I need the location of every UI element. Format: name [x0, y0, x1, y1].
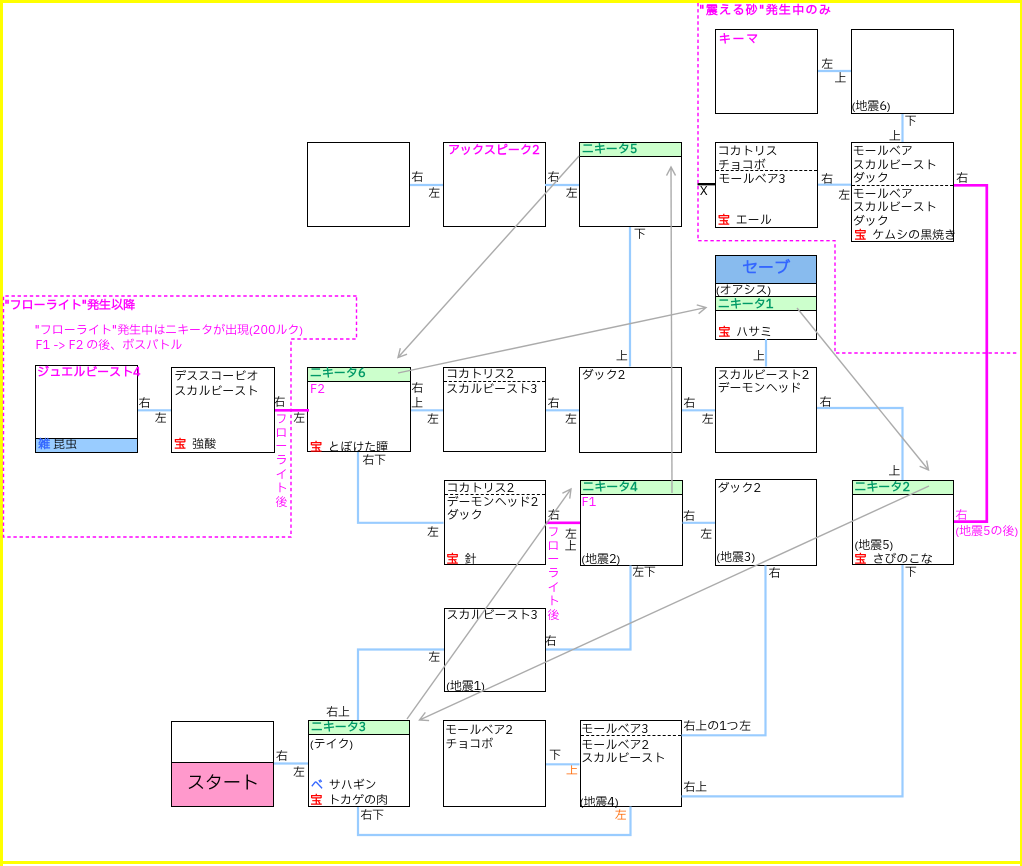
room cockatrice	[715, 142, 818, 228]
page frame yellow left	[0, 0, 3, 866]
dashed border fluorite region	[4, 296, 357, 537]
label fluorite region title	[5, 300, 136, 314]
divider cockatrice2-skull3 box	[444, 381, 545, 382]
connector direction labels	[411, 172, 423, 186]
dashed border trembling-sand region	[698, 3, 1019, 353]
room kiima	[715, 29, 818, 114]
wire jishin6-molebear	[901, 114, 903, 142]
label trembling-sand region title	[699, 5, 832, 19]
box interior texts	[719, 34, 760, 48]
room duck2	[579, 367, 682, 453]
wire X cockatrice-left	[698, 183, 716, 185]
arrow nikita3 to nikita4	[407, 489, 571, 719]
label jishin5-no-ato magenta	[956, 526, 1019, 540]
room molebear-double	[851, 142, 954, 242]
room empty top-left	[307, 142, 410, 227]
wire axepeak-nikita5	[545, 184, 579, 186]
wire nikita6-cockatrice2demon2	[358, 452, 444, 523]
wire cockatrice2-duck2	[546, 409, 579, 411]
wire skullbeast2-nikita2	[817, 408, 903, 480]
page frame yellow right	[1020, 0, 1022, 866]
wire nikita2-molebear3	[682, 565, 903, 796]
divider cockatrice box	[716, 170, 817, 171]
wire magenta death-nikita6 fluorite-after	[275, 409, 309, 412]
page frame yellow top	[0, 0, 1022, 3]
room skullbeast2-demon	[715, 367, 817, 453]
room jewelbeast4	[35, 365, 138, 453]
divider molebear3 box	[581, 735, 681, 736]
label migi jishin5-after magenta	[955, 510, 967, 524]
room start	[171, 721, 274, 808]
arrow nikita5 to nikita6	[398, 156, 579, 358]
save box nikita1 row	[715, 296, 817, 311]
orange labels	[566, 765, 578, 779]
wire nikita4-duck2b	[683, 522, 716, 524]
room duck2-jishin3	[715, 479, 817, 566]
wire save-skullbeast2	[765, 339, 767, 367]
label fluorite note line2	[36, 340, 183, 354]
wire nikita6-cockatrice2	[411, 409, 443, 411]
wire start-nikita3	[274, 762, 308, 764]
wire nikita5-duck2	[629, 227, 631, 367]
jewelbeast enemy strip	[36, 438, 137, 453]
room nikita3	[308, 720, 410, 807]
room jishin6	[851, 29, 954, 114]
wire duck2-skullbeast2	[682, 409, 715, 411]
save box header seebu	[715, 255, 817, 284]
room nikita2	[852, 480, 955, 565]
label fluorite note line1	[35, 325, 303, 339]
room deathscorpio	[171, 367, 275, 454]
room axepeak2	[443, 142, 546, 227]
page frame yellow bottom	[0, 861, 1022, 864]
vertical label fluorite-after 2	[548, 525, 560, 622]
room molebear2-chocobo	[443, 720, 546, 807]
arrow nikita1 to nikita2	[797, 308, 929, 470]
wire duck2b-molebear3	[682, 566, 766, 736]
wire empty-axepeak	[410, 184, 443, 186]
vertical label fluorite-after 1	[276, 412, 288, 509]
wire magenta cockatrice2demon2-nikita4 fluorite-after	[546, 521, 580, 524]
arrow nikita4 to nikita5	[671, 167, 672, 493]
room cockatrice2-skull3	[443, 367, 546, 453]
arrow nikita6 to nikita1	[398, 308, 706, 374]
room nikita4	[580, 480, 683, 566]
wire magenta molebear-nikita2 jishin5-after	[954, 185, 987, 521]
divider molebear box	[852, 185, 953, 186]
divider cockatrice2-demon2 box	[445, 494, 545, 495]
room cockatrice2-demon2	[444, 480, 546, 565]
arrow nikita2 to nikita3	[420, 486, 930, 720]
start box pink area	[172, 762, 273, 806]
wire kiima-jishin6	[818, 70, 851, 72]
wire jewel-death	[138, 409, 171, 411]
room molebear3-jishin4	[580, 720, 682, 807]
room save-oasis	[715, 255, 817, 340]
wire nikita3-molebear3-bottom	[358, 807, 631, 836]
wire cockatrice-molebear	[818, 184, 851, 186]
room nikita5	[579, 142, 682, 227]
wire nikita4-skullbeast3	[546, 566, 631, 650]
wire skullbeast3-nikita3	[358, 650, 444, 721]
room nikita6	[307, 367, 411, 453]
room skullbeast3-jishin1	[444, 608, 546, 693]
wire molebear2-molebear3	[546, 763, 580, 765]
